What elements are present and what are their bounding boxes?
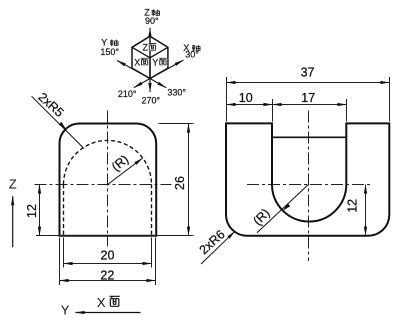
right view vertical centerline <box>308 111 310 262</box>
dimension 22 line <box>60 280 156 282</box>
label X axis (X軸 30°) <box>183 43 200 60</box>
dimension 26 extension bottom <box>60 235 194 237</box>
cube outline hexagon <box>132 36 168 78</box>
cube axis 270deg ray <box>149 79 151 93</box>
svg-text:270°: 270° <box>142 95 161 105</box>
svg-text:Y: Y <box>61 302 70 317</box>
cube axis 330deg ray <box>150 79 166 88</box>
dimension 12 left line <box>39 185 41 236</box>
leader (R) right arrowhead <box>283 203 290 210</box>
label Y axis (Y軸 150°) <box>100 38 119 57</box>
axis Z arrow <box>12 196 14 247</box>
svg-text:330°: 330° <box>167 88 186 98</box>
svg-text:37: 37 <box>301 65 315 79</box>
svg-text:90°: 90° <box>145 16 159 26</box>
cube axis 90deg ray (vertical through cube) <box>149 28 151 79</box>
dimension 20 line <box>64 263 152 265</box>
dimension 26 line <box>188 124 190 236</box>
label Z axis (Z軸 90°) <box>144 8 159 26</box>
cube axis 150deg ray <box>117 60 150 78</box>
cube front vertical edge redraw <box>149 58 151 79</box>
svg-text:30°: 30° <box>185 50 199 60</box>
left view hidden slot right wall <box>151 184 153 235</box>
cube internal edges <box>132 36 168 78</box>
svg-text:22: 22 <box>100 268 114 282</box>
leader (R) left line <box>108 158 143 184</box>
svg-text:12: 12 <box>346 199 360 213</box>
svg-text:Z: Z <box>143 42 149 52</box>
dimension 12 right line <box>365 185 367 236</box>
left view hidden slot arc <box>64 140 152 184</box>
svg-text:150°: 150° <box>100 47 119 57</box>
svg-text:10: 10 <box>239 91 253 105</box>
cube axis 30deg ray <box>150 60 183 78</box>
axis Y arrow <box>76 312 141 314</box>
cube axis 210deg ray <box>134 79 150 88</box>
dimension 22 extension left <box>59 238 61 286</box>
right view horizontal centerline <box>247 184 372 186</box>
leader 2xR6 line <box>201 231 235 264</box>
dimension 10 line <box>227 104 273 106</box>
cube face label Z面 <box>142 42 158 52</box>
leader (R) right line <box>257 184 309 232</box>
cube face label X面 <box>134 58 149 68</box>
svg-text:20: 20 <box>101 249 115 263</box>
dimension 37 extension right <box>389 77 391 122</box>
dimension 10/17 extension middle-right <box>346 99 348 122</box>
svg-text:X: X <box>134 58 140 68</box>
label X面 under left view <box>97 295 120 310</box>
left view vertical centerline <box>107 111 109 247</box>
slot inner visible edge <box>272 136 346 138</box>
left view horizontal centerline <box>35 184 172 186</box>
svg-text:Z: Z <box>9 176 17 191</box>
dimension 37 line <box>227 82 390 84</box>
left view outline <box>60 124 157 236</box>
left view hidden slot left wall <box>63 184 65 235</box>
dimension 20 extension left <box>63 238 65 268</box>
svg-text:26: 26 <box>173 176 187 190</box>
svg-text:Y: Y <box>152 58 158 68</box>
svg-text:X: X <box>97 295 106 310</box>
svg-text:12: 12 <box>25 204 39 218</box>
dimension 10/17 extension middle-left <box>272 99 274 122</box>
svg-text:210°: 210° <box>118 89 137 99</box>
dimension 17 line <box>273 104 347 106</box>
dimension 26 extension top <box>159 123 194 125</box>
leader 2xR5 arrowhead <box>59 122 66 129</box>
cube face label Y面 <box>151 58 167 68</box>
dimension 26 extension bottom-left <box>36 235 60 237</box>
dimension 20 extension right <box>151 238 153 268</box>
leader 2xR5 line <box>32 96 85 148</box>
dimension 37 extension left <box>226 77 228 122</box>
svg-text:17: 17 <box>301 91 315 105</box>
dimension 22 extension right <box>155 238 157 286</box>
right view outline <box>226 123 389 235</box>
